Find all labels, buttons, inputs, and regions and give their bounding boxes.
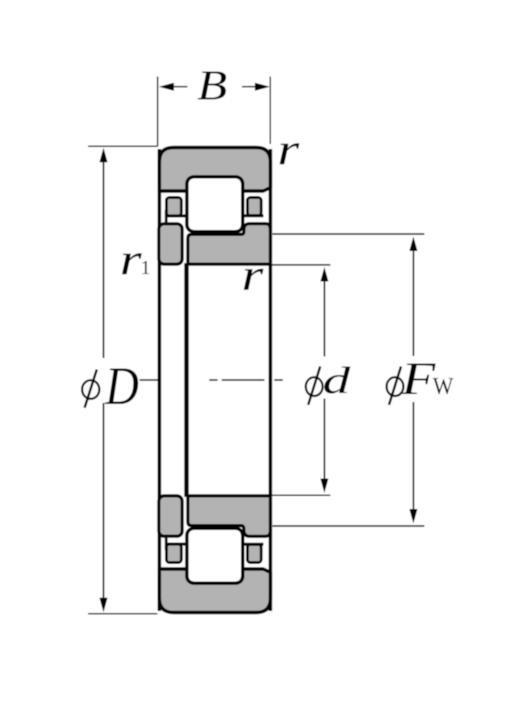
svg-text:r: r [242, 250, 264, 299]
roller bottom [187, 528, 243, 583]
cage bar top-left [165, 198, 187, 223]
label B [197, 62, 227, 109]
outer ring bottom [159, 569, 270, 613]
label phi D [82, 356, 139, 416]
label r1 left [120, 234, 151, 283]
wire bore line [184, 263, 188, 497]
svg-text:F: F [401, 354, 437, 405]
centerline axis dash-dot [140, 379, 283, 381]
loose rib bottom [159, 496, 182, 536]
label phi F w [387, 354, 454, 405]
cage bar bottom-right [243, 544, 264, 562]
dimension B arrows [159, 83, 270, 91]
svg-text:W: W [433, 373, 454, 399]
roller top [187, 177, 243, 232]
dimension phiD line and arrows [100, 148, 108, 613]
label phi d [306, 360, 351, 405]
label r inner [242, 250, 264, 299]
cage bar bottom-left [165, 537, 187, 562]
dimension phi-d extension lines [272, 264, 331, 266]
svg-text:r: r [120, 234, 142, 283]
outer ring top [159, 148, 270, 192]
svg-text:r: r [277, 124, 299, 173]
wire right bearing face line [269, 149, 273, 611]
dimension phiD extension lines [88, 145, 158, 147]
inner ring top [188, 224, 271, 264]
svg-text:1: 1 [141, 257, 151, 279]
cage bar top-right [243, 198, 264, 216]
dimension phi-d line and arrows [320, 267, 328, 493]
svg-text:d: d [323, 360, 351, 402]
svg-text:D: D [104, 356, 139, 416]
wire left bearing face line [158, 149, 162, 611]
svg-text:B: B [197, 62, 227, 109]
label r top-right [277, 124, 299, 173]
loose rib top [159, 224, 182, 264]
dimension B extension lines [157, 77, 159, 147]
dimension phi-Fw extension lines [273, 233, 425, 235]
inner ring bottom [188, 496, 271, 536]
dimension phi-Fw line and arrows [409, 237, 417, 524]
